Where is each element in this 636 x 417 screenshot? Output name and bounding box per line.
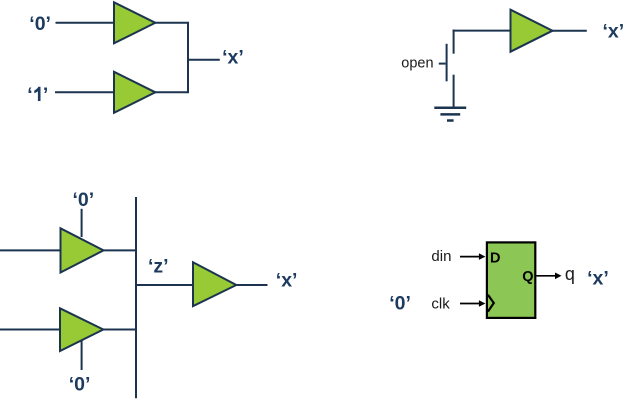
svg-text:D: D [490,250,500,266]
svg-text:‘0’: ‘0’ [29,13,51,35]
svg-text:‘0’: ‘0’ [69,373,91,395]
svg-text:’: ’ [43,84,48,106]
svg-text:open: open [401,56,433,72]
svg-text:‘: ‘ [27,84,32,106]
svg-text:‘x’: ‘x’ [587,267,609,289]
svg-text:clk: clk [431,296,450,313]
svg-text:‘0’: ‘0’ [73,189,95,211]
svg-text:‘x’: ‘x’ [276,270,298,292]
svg-text:Q: Q [522,269,533,285]
svg-text:‘x’: ‘x’ [222,47,244,69]
svg-text:‘x’: ‘x’ [603,21,625,43]
svg-text:din: din [431,248,451,265]
svg-text:‘0’: ‘0’ [389,293,411,315]
svg-text:q: q [565,264,575,284]
svg-text:‘z’: ‘z’ [148,255,169,277]
